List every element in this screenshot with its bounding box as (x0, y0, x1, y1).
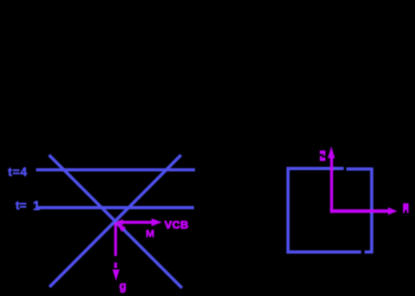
arrow right axis (330, 207, 397, 215)
svg-text:t=: t= (16, 199, 27, 213)
line t=4 (upper horizontal line) (36, 168, 195, 171)
svg-text:M: M (146, 228, 155, 240)
line t=1 (lower horizontal line) (36, 206, 195, 209)
arrow VCB horizontal double-headed (116, 218, 163, 226)
svg-text:VCB: VCB (165, 219, 189, 231)
arrowhead on diagonal pointing to crossing (116, 222, 126, 232)
square right edge (370, 168, 373, 254)
wire diagonal line up-right (50, 155, 182, 287)
arrow g downward dashed (113, 223, 120, 281)
square left edge (286, 167, 289, 253)
arrow up axis (328, 146, 335, 213)
square frame (287, 167, 373, 253)
svg-text:g: g (119, 281, 126, 293)
svg-text:1: 1 (33, 199, 40, 213)
wire diagonal line down-right (49, 155, 182, 288)
label N right axis (403, 203, 409, 213)
label z up axis (320, 151, 326, 162)
svg-text:t=4: t=4 (8, 165, 27, 179)
square top edge (two segments with gap) (287, 167, 344, 170)
square bottom edge (two segments with gap) (287, 250, 362, 253)
